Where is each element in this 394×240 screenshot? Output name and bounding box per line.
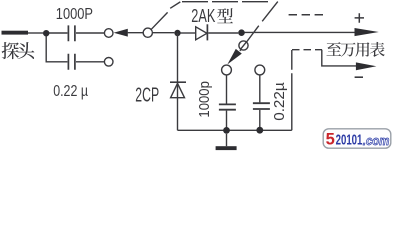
svg-text:20101: 20101: [336, 133, 363, 149]
svg-text:0.22µ: 0.22µ: [272, 82, 288, 121]
svg-text:1000P: 1000P: [56, 6, 93, 23]
svg-text:0.22 µ: 0.22 µ: [53, 83, 88, 100]
svg-text:2AK: 2AK: [191, 6, 215, 26]
svg-text:2CP: 2CP: [135, 84, 159, 106]
svg-text:1000p: 1000p: [197, 81, 213, 118]
svg-text:5: 5: [326, 130, 335, 148]
svg-text:.com: .com: [363, 133, 390, 148]
